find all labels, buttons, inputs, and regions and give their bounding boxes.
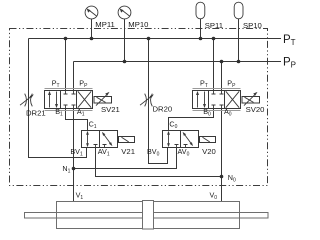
svg-text:DR21: DR21 — [26, 109, 46, 118]
wire DR20 branch P_T to BV0 — [149, 39, 168, 164]
wire AV1 to N0 — [96, 148, 222, 177]
throttle DR21 — [20, 94, 34, 107]
enclosure dash-dot border — [10, 29, 268, 186]
wire SV20 P_T drop — [213, 39, 215, 91]
V20 right square diagonal — [184, 133, 193, 145]
svg-text:V1: V1 — [76, 191, 84, 202]
svg-text:C0: C0 — [169, 120, 177, 131]
svg-text:SV20: SV20 — [246, 105, 265, 114]
svg-text:BV1: BV1 — [70, 147, 83, 158]
cylinder rod — [25, 213, 269, 219]
sensor SP11 — [196, 2, 205, 19]
svg-text:SP10: SP10 — [243, 21, 262, 30]
svg-text:MP10: MP10 — [128, 20, 148, 29]
svg-text:N1: N1 — [62, 164, 70, 175]
svg-text:V21: V21 — [121, 147, 135, 156]
V20 actuator — [200, 137, 216, 143]
wire A1 to N1 to cylinder V1 — [73, 109, 75, 202]
V21 blocked port left square — [94, 145, 98, 148]
svg-text:BV0: BV0 — [147, 147, 160, 158]
wire A0 to N0 to cylinder V0 — [221, 109, 223, 202]
svg-text:PT: PT — [200, 78, 208, 89]
cylinder piston — [143, 201, 154, 230]
valve SV20 — [193, 89, 260, 111]
svg-text:V20: V20 — [202, 147, 216, 156]
svg-text:SP11: SP11 — [205, 21, 223, 30]
valve SV21 — [45, 89, 112, 111]
SV20 center blocked ports — [212, 91, 224, 95]
svg-text:C1: C1 — [89, 120, 97, 131]
svg-text:V0: V0 — [210, 191, 218, 202]
SV20 actuator — [242, 97, 260, 104]
cylinder body — [57, 202, 240, 229]
svg-text:AV1: AV1 — [98, 147, 110, 158]
svg-text:SV21: SV21 — [101, 105, 120, 114]
gauge MP11 — [85, 6, 98, 19]
node N0 — [220, 175, 224, 179]
wire N1 to AV0 — [74, 148, 177, 169]
sensor SP10 — [234, 2, 243, 19]
SV21 actuator — [94, 97, 112, 104]
wire SP11 stem — [200, 19, 202, 39]
wire SV20 P_P drop — [221, 62, 223, 91]
wire DR21 branch P_T to BV1 — [29, 39, 87, 158]
svg-text:PT: PT — [283, 34, 296, 47]
gauge MP10 — [118, 6, 131, 19]
V21 actuator — [119, 137, 135, 143]
SV20 right position X — [226, 91, 239, 107]
node SV21 P_T tap — [64, 37, 68, 41]
svg-text:N0: N0 — [228, 173, 236, 184]
wire B1 to C1 — [66, 109, 88, 131]
cylinder — [25, 201, 269, 230]
V21 blocked port right square — [103, 145, 107, 148]
svg-text:PP: PP — [283, 57, 296, 70]
wire B0 to C0 — [169, 109, 214, 131]
wire P_T bus — [29, 38, 282, 40]
node MP11 tap — [90, 37, 94, 41]
SV21 center blocked ports — [64, 91, 76, 95]
SV21 right position X — [78, 91, 91, 107]
svg-text:PT: PT — [52, 78, 60, 89]
SV20 left position arrows — [197, 94, 199, 108]
wire SV21 P_P drop — [73, 62, 75, 91]
node SV20 P_P tap — [220, 60, 224, 64]
wire MP10 stem — [124, 19, 126, 62]
wire SV21 P_T drop — [65, 39, 67, 91]
node SP11 tap — [199, 37, 203, 41]
V21 open path double arrow — [87, 134, 89, 145]
V20 open path double arrow — [168, 134, 170, 145]
wire SP10 stem — [238, 19, 240, 62]
throttle DR20 — [140, 94, 154, 107]
node N1 — [72, 167, 76, 171]
node DR20 tap — [147, 37, 151, 41]
V20 blocked port right square — [184, 145, 188, 148]
SV21 left position arrows — [49, 94, 51, 108]
svg-text:MP11: MP11 — [95, 20, 115, 29]
node SP10 tap — [237, 60, 241, 64]
node SV20 P_T tap — [212, 37, 216, 41]
wire P_P bus — [74, 61, 282, 63]
svg-text:PP: PP — [227, 78, 236, 89]
valve V20 — [163, 131, 216, 148]
node MP10 tap — [123, 60, 127, 64]
wire MP11 stem — [91, 19, 93, 39]
svg-text:DR20: DR20 — [153, 105, 173, 114]
valve V21 — [82, 131, 135, 148]
svg-text:PP: PP — [79, 78, 88, 89]
V21 right square diagonal — [103, 133, 112, 145]
svg-text:AV0: AV0 — [178, 147, 190, 158]
V20 blocked port left square — [175, 145, 179, 148]
